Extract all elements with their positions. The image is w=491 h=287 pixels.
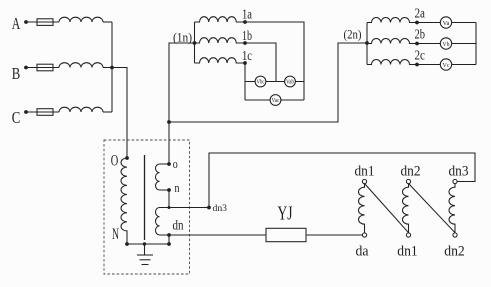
- ground bar 3: [142, 264, 149, 266]
- terminal dn1 top: [362, 179, 366, 183]
- meter Va: [440, 17, 451, 28]
- wire phase B lead: [26, 67, 59, 69]
- wire ground bus: [127, 243, 169, 245]
- terminal dn2 top: [406, 179, 410, 183]
- inductor divider coil 2: [402, 184, 408, 233]
- node terminal B: [24, 66, 28, 70]
- node n: [167, 188, 171, 192]
- wire bus B to O winding: [112, 68, 127, 159]
- node o: [167, 162, 171, 166]
- wire neutral link 1n-2n: [169, 43, 367, 122]
- svg-text:1b: 1b: [242, 28, 252, 43]
- svg-text:Vac: Vac: [272, 98, 280, 104]
- node 2n: [365, 41, 369, 45]
- wire dn3 to divider top: [209, 153, 475, 208]
- svg-text:2c: 2c: [415, 48, 426, 63]
- node terminal C: [24, 110, 28, 114]
- svg-text:Va: Va: [443, 20, 450, 27]
- inductor phase B: [59, 63, 103, 68]
- svg-text:dn2: dn2: [401, 164, 421, 180]
- node neutral junction: [167, 120, 171, 124]
- node 2a: [415, 21, 419, 25]
- svg-text:C: C: [12, 108, 21, 127]
- wire phase C to bus: [103, 111, 112, 113]
- node ground junction: [143, 242, 146, 245]
- wire dn to YJ: [169, 234, 266, 236]
- node 1c: [243, 61, 247, 65]
- terminal da bottom: [362, 233, 366, 237]
- inductor winding 2b: [367, 39, 417, 44]
- wire n to tap junction: [168, 190, 170, 208]
- svg-text:dn: dn: [173, 218, 184, 233]
- inductor winding 1c: [195, 58, 245, 63]
- winding O-N primary: [121, 158, 127, 244]
- wire 2a through meter Va: [417, 22, 476, 24]
- ground bar 2: [140, 259, 151, 261]
- wire 1b to meter row: [245, 43, 276, 82]
- inductor winding 2a: [367, 18, 417, 23]
- svg-text:Vb: Vb: [443, 41, 450, 48]
- node dn3 tap: [207, 206, 211, 210]
- wire diagonal dn1-dn1: [365, 184, 409, 233]
- svg-text:A: A: [12, 14, 21, 33]
- wire dn3 tap: [169, 207, 209, 209]
- svg-text:dn3: dn3: [449, 164, 469, 180]
- terminal dn2 bottom: [453, 233, 457, 237]
- node O: [125, 156, 129, 160]
- meter Vb: [440, 38, 451, 49]
- fuse FC: [37, 109, 53, 116]
- node 1b: [243, 41, 247, 45]
- wire YJ to da: [306, 234, 362, 236]
- inductor divider coil 3: [449, 184, 455, 233]
- meter Vac: [270, 95, 281, 106]
- node tap junction: [168, 206, 171, 209]
- node 2c: [415, 63, 419, 67]
- svg-text:dn3: dn3: [213, 204, 228, 214]
- fuse FA: [37, 19, 53, 26]
- ground bar 1: [137, 254, 153, 256]
- svg-text:2a: 2a: [415, 6, 426, 21]
- svg-text:YJ: YJ: [278, 203, 293, 225]
- meter Vab: [285, 76, 296, 87]
- svg-text:o: o: [173, 156, 178, 171]
- wire phase A lead: [26, 21, 59, 23]
- node 2b: [415, 42, 419, 46]
- wire bus A-C: [111, 22, 113, 112]
- svg-text:(2n): (2n): [344, 27, 362, 42]
- node terminal A: [24, 20, 28, 24]
- svg-text:Vbc: Vbc: [257, 80, 265, 86]
- wire phase A to bus: [103, 21, 112, 23]
- wire meter row upper: [245, 81, 304, 83]
- wire dn to ground bus: [168, 235, 170, 244]
- svg-text:N: N: [112, 226, 119, 243]
- svg-text:1c: 1c: [242, 48, 252, 63]
- inductor phase C: [59, 107, 103, 112]
- node 1n: [193, 41, 197, 45]
- wire 1c down: [244, 63, 246, 100]
- terminal dn3 top: [453, 179, 457, 183]
- wire phase B to bus: [103, 67, 112, 69]
- svg-text:O: O: [111, 153, 119, 170]
- svg-text:n: n: [175, 180, 180, 195]
- fuse FB: [37, 64, 53, 71]
- wire meter common vertical: [475, 23, 477, 65]
- svg-text:dn1: dn1: [355, 164, 375, 180]
- wire 1n to neutral node: [169, 43, 195, 122]
- wire 1a to meter loop: [245, 22, 304, 100]
- meter Vbc: [255, 76, 266, 87]
- inductor winding 2c: [367, 60, 417, 65]
- transformer dashed enclosure: [104, 140, 190, 274]
- svg-text:da: da: [356, 244, 370, 260]
- node bus B junction: [110, 66, 114, 70]
- wire meter row lower: [245, 99, 304, 101]
- resistor YJ: [266, 228, 306, 241]
- meter Vc: [440, 59, 451, 70]
- svg-text:(1n): (1n): [173, 30, 192, 45]
- wire diagonal dn2-dn2: [409, 184, 456, 233]
- svg-text:Vab: Vab: [286, 80, 294, 86]
- node dn: [167, 233, 171, 237]
- wire 2n left vertical: [366, 23, 368, 65]
- inductor winding 1b: [195, 38, 245, 43]
- node bottom right junction: [167, 242, 171, 246]
- node 1a: [243, 20, 247, 24]
- svg-text:2b: 2b: [415, 27, 426, 42]
- winding o-n secondary upper: [156, 164, 170, 190]
- wire 2c through meter Vc: [417, 64, 476, 66]
- svg-text:Vc: Vc: [443, 62, 450, 69]
- ground stem: [144, 244, 146, 255]
- wire phase C lead: [26, 111, 59, 113]
- winding n-dn secondary lower: [156, 208, 170, 235]
- inductor divider coil 1: [358, 184, 364, 233]
- svg-text:dn1: dn1: [397, 244, 418, 260]
- terminal dn1 bottom: [406, 233, 410, 237]
- transformer core: [144, 155, 146, 240]
- node N: [125, 242, 129, 246]
- svg-text:1a: 1a: [242, 7, 252, 22]
- wire neutral node to o terminal: [168, 122, 170, 164]
- svg-text:B: B: [12, 64, 21, 83]
- inductor winding 1a: [195, 17, 245, 22]
- wire 2b through meter Vb: [417, 43, 476, 45]
- wire 1n left vertical: [194, 22, 196, 63]
- inductor phase A: [59, 17, 103, 22]
- svg-text:dn2: dn2: [444, 244, 465, 260]
